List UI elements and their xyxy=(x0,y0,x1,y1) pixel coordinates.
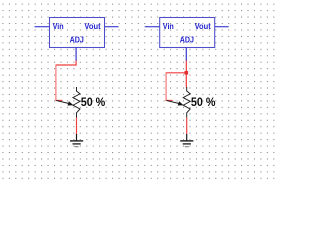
regulator U1 body xyxy=(50,18,105,48)
label 50 % (R2) xyxy=(191,96,216,109)
wire: U2 Vout stub xyxy=(215,26,229,28)
wire: red net U1 ADJ to wiper xyxy=(55,61,76,101)
wire: U1 Vin stub xyxy=(35,26,50,28)
svg-text:Vin: Vin xyxy=(53,21,64,31)
regulator U2 body xyxy=(160,18,215,48)
svg-text:Vin: Vin xyxy=(163,21,174,31)
wire: U2 ADJ pin lead xyxy=(185,48,187,61)
wire: U1 Vout stub xyxy=(105,26,119,28)
wire: U1 ADJ pin lead xyxy=(75,48,77,61)
wire: red net R2 bottom to ground xyxy=(186,118,188,135)
U2 pin label Vin xyxy=(163,21,174,31)
svg-text:ADJ: ADJ xyxy=(70,34,84,44)
potentiometer R1 wiper arrow xyxy=(56,101,73,106)
wire: red net U2 ADJ to wiper and R2 top xyxy=(166,61,187,101)
label 50 % (R1) xyxy=(81,96,106,109)
wire: red net R1 bottom to ground xyxy=(76,118,78,135)
U2 pin label ADJ xyxy=(180,34,194,44)
wire: U2 Vin stub xyxy=(145,26,160,28)
ground symbol (left) xyxy=(70,134,83,147)
svg-text:50 %: 50 % xyxy=(191,96,216,109)
U1 pin label ADJ xyxy=(70,34,84,44)
ground symbol (right) xyxy=(180,134,193,147)
U1 pin label Vin xyxy=(53,21,64,31)
junction dot on U2 ADJ net xyxy=(185,71,189,75)
potentiometer R1 zigzag xyxy=(73,87,80,118)
potentiometer R2 wiper arrow xyxy=(167,101,184,106)
svg-text:Vout: Vout xyxy=(84,21,100,31)
svg-text:50 %: 50 % xyxy=(81,96,106,109)
svg-text:Vout: Vout xyxy=(195,21,211,31)
U2 pin label Vout xyxy=(195,21,211,31)
potentiometer R2 zigzag xyxy=(183,87,190,118)
svg-text:ADJ: ADJ xyxy=(180,34,194,44)
U1 pin label Vout xyxy=(84,21,100,31)
